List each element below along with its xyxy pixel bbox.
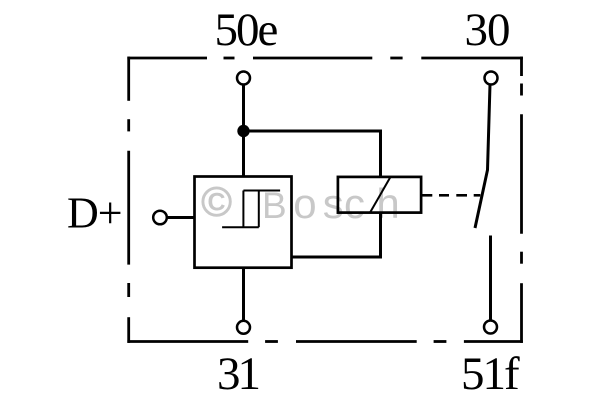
- relay coil diagonal: [370, 177, 391, 213]
- terminal D+: [153, 211, 167, 225]
- hysteresis symbol: [222, 191, 280, 228]
- svg-text:o: o: [293, 180, 316, 227]
- terminal 31: [237, 321, 250, 334]
- enclosure dashed border top: [127, 57, 523, 60]
- wire box right to coil bottom: [292, 213, 381, 257]
- svg-text:51f: 51f: [461, 348, 520, 400]
- svg-text:s: s: [323, 180, 344, 227]
- terminal 51f: [484, 321, 497, 334]
- svg-text:50e: 50e: [215, 4, 278, 56]
- control unit box U1: [195, 177, 292, 268]
- mechanical link dashed: [422, 194, 481, 197]
- wire box bottom to terminal 31: [242, 268, 245, 321]
- svg-text:C: C: [208, 189, 226, 217]
- switch lower contact wire: [489, 236, 492, 321]
- enclosure dashed border right: [520, 57, 523, 343]
- svg-text:c: c: [344, 180, 365, 227]
- enclosure dashed border left: [127, 57, 130, 343]
- watermark copyright symbol: [203, 188, 230, 215]
- svg-text:31: 31: [217, 348, 259, 400]
- terminal 50e: [237, 72, 250, 85]
- relay coil K1: [338, 177, 421, 213]
- junction node: [237, 125, 249, 137]
- wire junction to coil top: [244, 131, 381, 177]
- wire D+ to box left: [167, 216, 195, 219]
- switch blade: [475, 85, 490, 229]
- svg-text:30: 30: [465, 4, 510, 56]
- watermark Bosch text: [262, 180, 400, 227]
- enclosure dashed border bottom: [127, 340, 523, 343]
- svg-text:D+: D+: [67, 189, 122, 238]
- terminal 30: [485, 72, 498, 85]
- wire 50e to box top: [242, 85, 245, 177]
